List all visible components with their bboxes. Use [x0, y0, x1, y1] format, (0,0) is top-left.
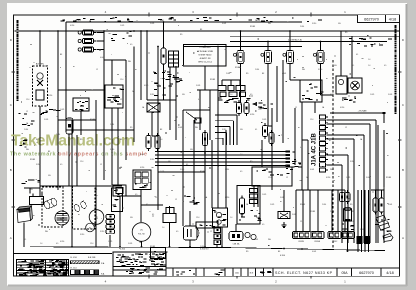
svg-text:6.350: 6.350	[70, 25, 74, 27]
svg-text:CB12B: CB12B	[298, 241, 304, 243]
svg-text:0.5: 0.5	[176, 231, 178, 233]
svg-text:1.4: 1.4	[204, 161, 206, 163]
svg-text:4.041: 4.041	[100, 57, 104, 59]
svg-text:2.014: 2.014	[110, 124, 114, 126]
svg-text:5.035: 5.035	[128, 243, 132, 245]
svg-text:6.350: 6.350	[225, 197, 229, 199]
svg-text:12.4: 12.4	[26, 99, 29, 101]
svg-text:5.035: 5.035	[366, 177, 370, 179]
svg-text:1.4: 1.4	[162, 227, 164, 229]
svg-text:5A/25: 5A/25	[255, 19, 260, 22]
svg-text:6.350: 6.350	[60, 241, 64, 243]
svg-text:B: B	[402, 168, 404, 172]
svg-text:05A: 05A	[341, 271, 348, 275]
svg-text:6.350: 6.350	[144, 85, 148, 87]
svg-text:6.350: 6.350	[140, 167, 144, 169]
svg-text:6.350: 6.350	[340, 107, 344, 109]
svg-text:N SEMT RA 4D: N SEMT RA 4D	[198, 53, 212, 56]
svg-text:PUL. NO: PUL. NO	[138, 234, 145, 236]
svg-text:6.1: 6.1	[24, 239, 26, 241]
svg-text:5.035: 5.035	[280, 197, 284, 199]
svg-text:R.A.: R.A.	[101, 272, 105, 275]
svg-text:1.4: 1.4	[40, 243, 42, 245]
svg-text:3.310: 3.310	[36, 164, 40, 166]
svg-text:A: A	[10, 236, 12, 240]
svg-text:R.A.: R.A.	[101, 262, 105, 265]
svg-text:12.4: 12.4	[196, 217, 199, 219]
svg-text:N.N: N.N	[250, 273, 254, 275]
svg-text:0.5: 0.5	[384, 65, 386, 67]
svg-text:RD/BK: RD/BK	[250, 26, 256, 28]
svg-text:1.4: 1.4	[115, 191, 117, 193]
svg-text:6.1: 6.1	[356, 54, 358, 56]
svg-text:1.025: 1.025	[262, 194, 266, 196]
svg-text:0.5: 0.5	[300, 147, 302, 149]
svg-text:A: A	[402, 236, 404, 240]
svg-text:0.5: 0.5	[56, 243, 58, 245]
svg-text:3.310: 3.310	[150, 94, 154, 96]
svg-text:2.014: 2.014	[225, 169, 229, 171]
svg-text:1.025: 1.025	[156, 85, 160, 87]
svg-text:6.1: 6.1	[352, 65, 354, 67]
svg-text:6.350: 6.350	[120, 249, 126, 251]
svg-text:5.035: 5.035	[180, 169, 184, 171]
svg-text:6.350 NO: 6.350 NO	[200, 249, 209, 251]
svg-text:12.4: 12.4	[80, 161, 83, 163]
svg-text:2.014: 2.014	[330, 211, 334, 213]
svg-text:+ ECRAN: + ECRAN	[358, 110, 367, 113]
svg-text:S: S	[89, 226, 91, 230]
svg-text:1.025: 1.025	[346, 177, 350, 179]
svg-text:4/18: 4/18	[386, 271, 393, 275]
svg-text:3.310: 3.310	[350, 161, 354, 163]
svg-text:4.041: 4.041	[388, 204, 392, 206]
svg-text:3.310: 3.310	[110, 149, 114, 151]
svg-text:40 APRT J/N: 40 APRT J/N	[200, 57, 211, 60]
svg-text:J2: J2	[26, 111, 28, 113]
svg-text:J2: J2	[352, 221, 354, 223]
svg-text:3.310: 3.310	[80, 234, 84, 236]
svg-text:J2: J2	[120, 99, 122, 101]
svg-text:6.1: 6.1	[186, 164, 188, 166]
svg-text:RD/BK: RD/BK	[90, 119, 96, 121]
svg-text:H: H	[141, 229, 143, 232]
svg-text:6.350: 6.350	[330, 94, 334, 96]
svg-text:2.014: 2.014	[300, 26, 304, 28]
svg-text:6.1: 6.1	[95, 189, 97, 191]
svg-text:RD/BK: RD/BK	[200, 171, 206, 173]
svg-text:SCH. ELECT. N627 N633 KP: SCH. ELECT. N627 N633 KP	[275, 271, 333, 275]
svg-text:J2: J2	[286, 177, 288, 179]
svg-text:CB12A: CB12A	[314, 240, 320, 243]
svg-text:1.4: 1.4	[160, 139, 162, 141]
svg-text:J2: J2	[345, 127, 347, 129]
svg-text:5.035: 5.035	[388, 94, 392, 96]
svg-text:1.025: 1.025	[370, 94, 374, 96]
svg-text:4.041: 4.041	[310, 169, 314, 171]
svg-text:4.041: 4.041	[312, 251, 316, 253]
svg-text:1.025: 1.025	[60, 109, 64, 111]
svg-text:3.310: 3.310	[312, 23, 316, 25]
svg-text:RD/BK: RD/BK	[30, 159, 36, 161]
svg-text:6.350: 6.350	[280, 255, 286, 257]
svg-text:12.4: 12.4	[155, 197, 158, 199]
svg-text:4.041: 4.041	[282, 73, 286, 75]
svg-text:6627970: 6627970	[364, 18, 379, 22]
svg-text:12.4: 12.4	[268, 177, 271, 179]
svg-text:6.1: 6.1	[146, 204, 148, 206]
svg-text:12.4: 12.4	[258, 109, 261, 111]
svg-text:J2: J2	[210, 231, 212, 233]
svg-text:6.1: 6.1	[255, 129, 257, 131]
svg-text:B.E I3/B: B.E I3/B	[88, 257, 96, 259]
svg-text:RD/BK: RD/BK	[310, 211, 316, 213]
svg-text:0.5: 0.5	[60, 164, 62, 166]
svg-text:HORN: HORN	[75, 20, 81, 22]
svg-text:4.041: 4.041	[178, 127, 182, 129]
svg-text:B: B	[10, 168, 12, 172]
svg-text:0.5: 0.5	[262, 224, 264, 226]
svg-text:3.310: 3.310	[318, 69, 322, 71]
svg-text:3.310: 3.310	[100, 231, 104, 233]
svg-text:12.4: 12.4	[90, 243, 93, 245]
svg-text:1.025: 1.025	[120, 25, 124, 27]
svg-text:1.025: 1.025	[160, 171, 164, 173]
svg-text:6.350: 6.350	[256, 217, 260, 219]
svg-text:GPRD 12-4 13-2: GPRD 12-4 13-2	[198, 62, 212, 64]
svg-text:2.014: 2.014	[56, 134, 60, 136]
svg-text:0.5: 0.5	[250, 94, 252, 96]
svg-text:5.035: 5.035	[292, 214, 296, 216]
svg-text:5.035: 5.035	[150, 23, 154, 25]
svg-text:J1A 4C J1B: J1A 4C J1B	[312, 133, 318, 166]
svg-text:1.4: 1.4	[368, 59, 370, 61]
svg-text:5.035: 5.035	[360, 229, 364, 231]
svg-text:4P IN SEAL SYMB: 4P IN SEAL SYMB	[197, 50, 214, 53]
svg-text:0.5: 0.5	[130, 44, 132, 46]
svg-text:5.035: 5.035	[44, 119, 48, 121]
svg-text:4.041: 4.041	[140, 154, 144, 156]
svg-text:3.310: 3.310	[222, 129, 226, 131]
svg-text:0.5: 0.5	[240, 171, 242, 173]
svg-text:2.014: 2.014	[322, 204, 326, 206]
svg-text:E. 410: E. 410	[71, 257, 78, 259]
svg-text:2.014: 2.014	[24, 129, 28, 131]
svg-text:12.4: 12.4	[310, 119, 313, 121]
svg-text:G: G	[95, 216, 98, 220]
svg-text:RD/BK: RD/BK	[210, 79, 216, 81]
svg-text:TO BE USED: TO BE USED	[199, 47, 211, 49]
svg-text:4/18: 4/18	[389, 18, 396, 22]
svg-text:1.025: 1.025	[270, 204, 274, 206]
svg-text:J2: J2	[100, 164, 102, 166]
svg-text:The watermark only appears on: The watermark only appears on this sampl…	[10, 152, 147, 158]
svg-text:6627970: 6627970	[359, 271, 374, 275]
svg-text:RD/BK: RD/BK	[386, 177, 392, 179]
svg-text:12.4: 12.4	[120, 79, 123, 81]
svg-text:4.041: 4.041	[388, 231, 392, 233]
svg-text:2.014: 2.014	[226, 73, 230, 75]
svg-text:3.310: 3.310	[150, 159, 154, 161]
svg-text:1.4: 1.4	[368, 65, 370, 67]
svg-text:12.4: 12.4	[300, 221, 303, 223]
svg-text:CM1 SA: CM1 SA	[233, 243, 240, 246]
svg-text:4.041: 4.041	[222, 23, 226, 25]
svg-text:5.035: 5.035	[196, 85, 200, 87]
svg-text:1.4: 1.4	[230, 94, 232, 96]
svg-text:6.1: 6.1	[198, 99, 200, 101]
svg-text:0.5: 0.5	[135, 194, 137, 196]
svg-text:E. 110: E. 110	[71, 268, 78, 270]
svg-text:1.025: 1.025	[262, 119, 266, 121]
svg-text:6.350: 6.350	[48, 95, 52, 97]
svg-text:1.4: 1.4	[230, 217, 232, 219]
svg-text:2.014: 2.014	[255, 69, 259, 71]
svg-text:6.350: 6.350	[326, 177, 330, 179]
svg-text:TakeManual.com: TakeManual.com	[11, 133, 135, 150]
svg-text:4.041: 4.041	[254, 239, 258, 241]
svg-text:1.025: 1.025	[108, 241, 112, 243]
svg-text:J2: J2	[295, 107, 297, 109]
svg-text:1.4: 1.4	[240, 154, 242, 156]
svg-text:6.1: 6.1	[218, 151, 220, 153]
svg-text:J2: J2	[96, 69, 98, 71]
svg-text:CD12: CD12	[333, 241, 338, 243]
svg-text:RD/BK: RD/BK	[300, 204, 306, 206]
svg-text:4 CONTACT AL: 4 CONTACT AL	[288, 38, 303, 41]
svg-text:6.350: 6.350	[250, 114, 254, 116]
svg-text:J2: J2	[175, 199, 177, 201]
